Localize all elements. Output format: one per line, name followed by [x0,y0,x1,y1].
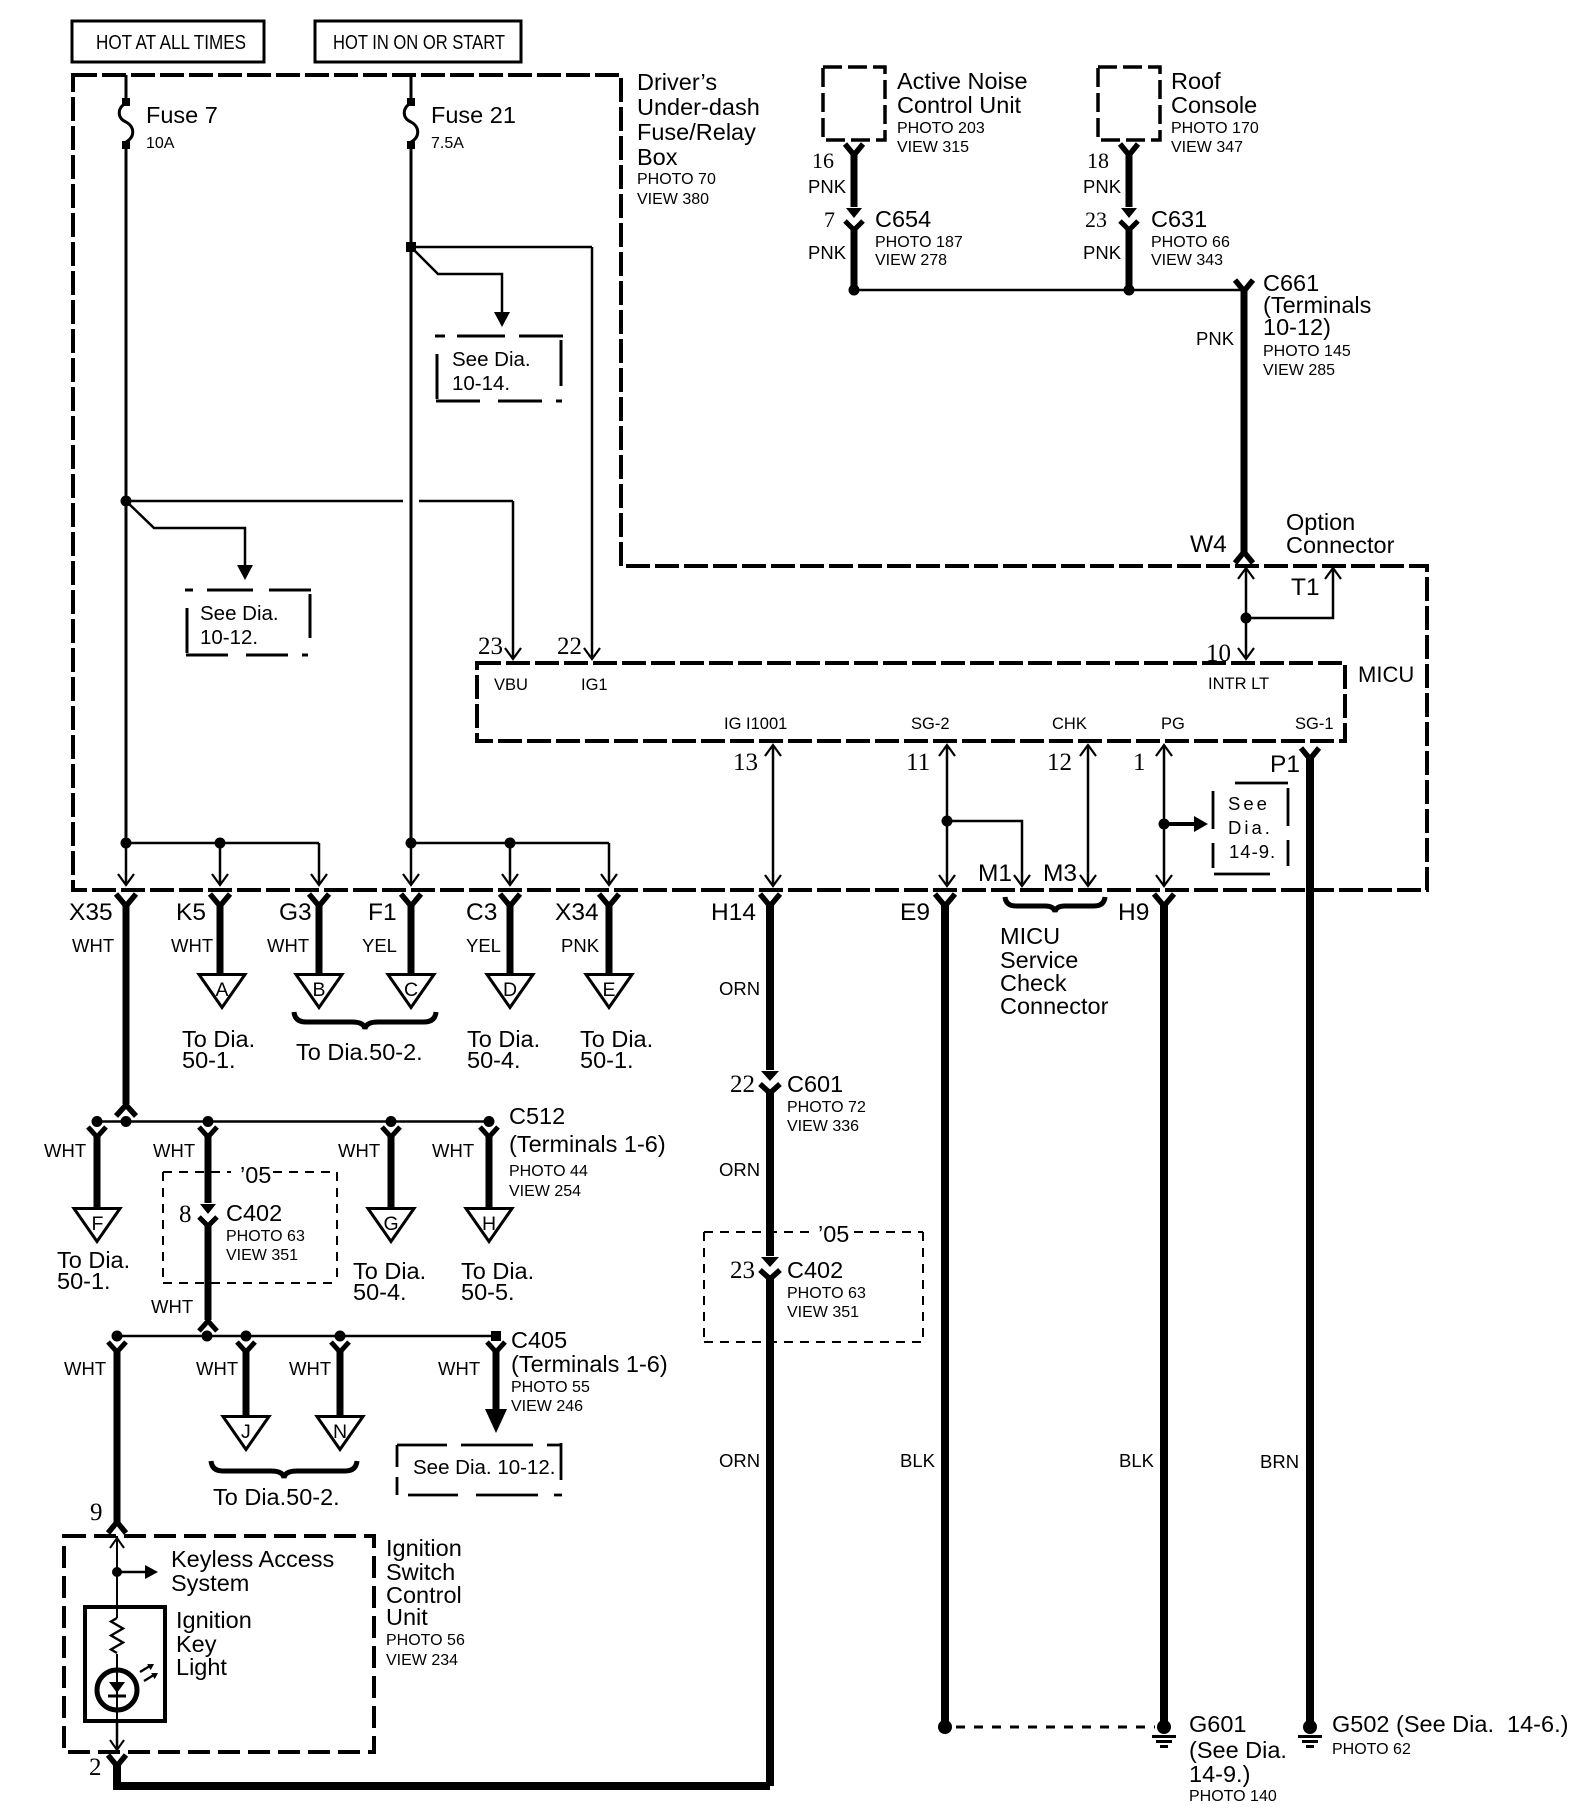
svg-text:System: System [171,1570,249,1596]
svg-text:C512: C512 [509,1103,565,1129]
connector pin G3 with triangle B [267,894,342,1008]
unit box Keyless dashed outline [64,1536,374,1752]
wire arrow into F1 [403,843,419,885]
svg-text:Fuse/Relay: Fuse/Relay [637,119,756,145]
node C512 tap H [484,1116,495,1127]
svg-text:Connector: Connector [1286,532,1395,558]
svg-text:VIEW 234: VIEW 234 [386,1652,458,1669]
svg-text:PHOTO 140: PHOTO 140 [1189,1788,1277,1805]
svg-text:23: 23 [478,633,503,660]
node fuse7 branch junction [121,496,132,507]
wire PNK down to W4 [1241,288,1248,553]
svg-text:PHOTO 63: PHOTO 63 [787,1285,866,1302]
svg-text:WHT: WHT [44,1140,86,1161]
svg-text:10A: 10A [146,135,175,152]
svg-text:WHT: WHT [432,1140,474,1161]
wire MICU pin 11 to E9 [939,745,955,886]
svg-text:YEL: YEL [466,935,501,956]
svg-text:VIEW 285: VIEW 285 [1263,362,1335,379]
label Ignition Key Light [176,1607,252,1680]
node C405 tap N [335,1331,346,1342]
svg-text:C402: C402 [787,1257,843,1283]
wire C3/X34 branch line [411,842,609,845]
label box HOT AT ALL TIMES [72,21,264,62]
svg-text:(Terminals 1-6): (Terminals 1-6) [509,1131,666,1157]
svg-text:PG: PG [1161,715,1185,733]
fuse F7 [119,98,218,152]
svg-text:12: 12 [1047,749,1072,776]
svg-text:E9: E9 [900,899,930,926]
svg-text:ORN: ORN [719,1450,760,1471]
svg-text:X34: X34 [555,899,599,926]
svg-text:PHOTO 44: PHOTO 44 [509,1163,588,1180]
label MICU Service Check Connector [1000,923,1109,1019]
svg-text:Fuse 21: Fuse 21 [431,102,516,128]
reference box See Dia. 10-12. (bottom) [397,1443,562,1495]
fuse F21 [404,98,516,152]
wire branch to See Dia. 10-14. [411,247,510,327]
connector chevron X35 to C512 line [116,1105,136,1116]
svg-text:See Dia.: See Dia. [200,602,279,625]
svg-text:Under-dash: Under-dash [637,94,760,120]
svg-text:VBU: VBU [494,676,528,694]
svg-text:VIEW 315: VIEW 315 [897,139,969,156]
connector stub C402 (left) [153,1127,217,1203]
LED emission arrows [140,1664,158,1681]
svg-text:Fuse 7: Fuse 7 [146,102,218,128]
node C405 tap C402 [202,1331,213,1342]
connector chevron at ANC pin 16 [845,144,863,155]
svg-text:11: 11 [906,749,930,776]
wire BLK H9 down to G601 [1160,903,1168,1722]
svg-text:10-14.: 10-14. [452,372,510,395]
label C405 (Terminals 1-6) [511,1327,668,1415]
wire arrow into G3 [311,843,327,885]
svg-text:C405: C405 [511,1327,567,1353]
svg-text:PHOTO 170: PHOTO 170 [1171,120,1259,137]
node C512 tap F [92,1116,103,1127]
label box HOT IN ON OR START [315,21,521,62]
svg-text:VIEW 343: VIEW 343 [1151,252,1223,269]
svg-text:VIEW 278: VIEW 278 [875,252,947,269]
svg-text:14-9.: 14-9. [1229,841,1276,862]
svg-text:PHOTO 72: PHOTO 72 [787,1099,866,1116]
component box Ignition Key Light [85,1607,165,1721]
svg-text:WHT: WHT [267,935,309,956]
node C512 tap G [386,1116,397,1127]
connector stub with triangle G [338,1127,426,1305]
svg-text:H9: H9 [1118,899,1149,926]
wire W4 to MICU pin 10 [1238,568,1254,659]
ground G601 [1152,1720,1176,1747]
svg-text:J: J [241,1421,251,1443]
brace under J and N [211,1461,357,1478]
svg-text:See: See [1228,793,1270,814]
svg-text:VIEW 246: VIEW 246 [511,1398,583,1415]
svg-text:50-5.: 50-5. [461,1279,515,1305]
svg-text:W4: W4 [1190,531,1227,558]
svg-text:C: C [404,979,418,1001]
wire branch to See Dia. 10-12. [126,501,253,580]
label Option Connector [1286,509,1395,558]
svg-text:Ignition: Ignition [176,1607,252,1633]
node C405 tap arrow [491,1331,501,1341]
svg-text:G3: G3 [279,899,312,926]
svg-text:Keyless Access: Keyless Access [171,1546,334,1572]
connector stub to keyless system [64,1342,126,1522]
wire arrow into X35 [118,843,134,885]
wire arrow into C3 [502,843,518,885]
wire C405 connector line [117,1335,496,1338]
connector pin E9 [900,894,955,926]
svg-text:PHOTO 70: PHOTO 70 [637,171,716,188]
node C405 tap keyless [112,1331,123,1342]
node Roof Console junction [1124,285,1135,296]
svg-text:7: 7 [824,207,835,232]
svg-text:WHT: WHT [338,1140,380,1161]
svg-text:See Dia.: See Dia. [452,348,531,371]
reference box See Dia. 10-12. (left) [185,590,311,655]
connector pin X35 [69,894,136,1104]
node F1 branch junction [406,838,417,849]
svg-text:MICU: MICU [1000,923,1060,949]
svg-text:WHT: WHT [438,1358,480,1379]
connector pin X34 with triangle E [555,894,653,1073]
svg-text:WHT: WHT [289,1358,331,1379]
svg-text:PNK: PNK [808,176,847,197]
svg-text:PHOTO 62: PHOTO 62 [1332,1741,1411,1758]
svg-text:C3: C3 [466,899,497,926]
svg-text:PHOTO 55: PHOTO 55 [511,1379,590,1396]
svg-text:PNK: PNK [1083,242,1122,263]
label Ignition Switch Control Unit [386,1535,465,1669]
reference box See Dia. 14-9. [1213,783,1288,874]
wire VBU branch horizontal (gap at F21 crossover) [126,500,513,503]
node E9 ground tie [938,1720,952,1734]
svg-text:B: B [313,979,326,1001]
svg-text:See Dia. 10-12.: See Dia. 10-12. [413,1456,555,1479]
svg-text:Connector: Connector [1000,993,1109,1019]
wire K5 branch line [126,842,319,845]
svg-text:2: 2 [89,1754,102,1781]
wire arrow to Keyless Access System [117,1565,158,1579]
svg-text:Console: Console [1171,92,1257,118]
05 model year dashed box (right) [704,1221,923,1342]
wire PNK from ANC [851,152,858,207]
svg-text:22: 22 [557,633,582,660]
wire into keyless box with arrow [110,1536,124,1750]
wire fuse 21 feed [410,75,413,99]
svg-text:PHOTO 56: PHOTO 56 [386,1632,465,1649]
wire fuse 7 output [125,147,128,843]
connector pin F1 with triangle C [362,894,434,1008]
svg-text:E: E [603,979,616,1001]
svg-text:9: 9 [90,1499,103,1526]
svg-text:WHT: WHT [196,1358,238,1379]
svg-text:K5: K5 [176,899,206,926]
svg-text:50-4.: 50-4. [353,1279,407,1305]
wire fuse 21 output [410,147,413,843]
svg-text:23: 23 [1085,207,1107,232]
svg-text:10-12): 10-12) [1263,314,1331,340]
node T1 junction [1241,613,1252,624]
svg-text:G: G [384,1213,399,1235]
svg-text:ORN: ORN [719,1159,760,1180]
svg-text:D: D [503,979,517,1001]
svg-text:M1: M1 [978,860,1012,887]
svg-text:50-1.: 50-1. [182,1047,236,1073]
connector stub with triangle F [44,1127,130,1294]
svg-text:Ignition: Ignition [386,1535,462,1561]
wire BLK E9 down [941,903,949,1727]
node ANC junction [849,285,860,296]
svg-text:VIEW 380: VIEW 380 [637,191,709,208]
node C3 branch junction [505,838,516,849]
svg-text:8: 8 [179,1201,192,1228]
wire fuse 7 feed [125,75,128,99]
reference box See Dia. 10-14. [435,336,563,401]
wire ORN H14 upper [766,903,774,1070]
svg-text:50-1.: 50-1. [57,1268,111,1294]
svg-text:C631: C631 [1151,206,1207,232]
node SG-2 M1 junction [942,816,953,827]
svg-text:WHT: WHT [72,935,114,956]
svg-text:1: 1 [1133,749,1146,776]
wire BRN P1 down to G502 [1306,756,1314,1722]
svg-text:CHK: CHK [1052,715,1087,733]
svg-text:Unit: Unit [386,1604,428,1630]
svg-text:H: H [482,1213,496,1235]
svg-text:WHT: WHT [171,935,213,956]
svg-text:7.5A: 7.5A [431,135,464,152]
05 model year dashed box (left) [163,1162,337,1283]
svg-text:10-12.: 10-12. [200,626,258,649]
svg-text:VIEW 254: VIEW 254 [509,1183,581,1200]
inline connector C402 pin 8 [179,1200,305,1264]
svg-text:18: 18 [1087,148,1109,173]
wire MICU pin 12 CHK [1080,745,1096,886]
svg-text:PNK: PNK [1196,328,1235,349]
svg-text:YEL: YEL [362,935,397,956]
connector pin H9 [1118,894,1174,926]
connector stub with triangle N [289,1342,363,1450]
svg-text:IG I1001: IG I1001 [724,715,787,733]
svg-text:P1: P1 [1270,751,1300,778]
node C512 tap X35 [121,1116,132,1127]
svg-text:HOT IN ON OR START: HOT IN ON OR START [333,31,505,54]
connector stub with triangle H [432,1127,534,1305]
svg-text:X35: X35 [69,899,113,926]
wire VBU branch vertical to MICU [505,501,521,659]
wire C402 to C405 [205,1223,212,1320]
node fuse21 branch junction [406,242,416,252]
brace MICU service check connector [1005,897,1105,912]
connector pin C3 with triangle D [466,894,540,1073]
ground G502 [1298,1720,1322,1747]
wire PNK to junction [851,227,858,290]
svg-text:F: F [92,1213,104,1235]
label Keyless Access System [171,1546,334,1596]
svg-text:M3: M3 [1043,860,1077,887]
svg-text:HOT AT ALL TIMES: HOT AT ALL TIMES [96,31,246,54]
svg-text:C601: C601 [787,1071,843,1097]
wire IG1 branch vertical to MICU [584,247,600,659]
inline connector C601 pin 22 [730,1071,866,1135]
svg-text:PHOTO 63: PHOTO 63 [226,1228,305,1245]
svg-text:VIEW 351: VIEW 351 [226,1247,298,1264]
inline connector C402 pin 23 [730,1257,866,1321]
svg-text:C654: C654 [875,206,931,232]
svg-text:Light: Light [176,1654,227,1680]
svg-text:WHT: WHT [153,1140,195,1161]
connector chevron pin 2 [108,1755,126,1766]
fuse/relay box dashed outline [73,75,1427,890]
wire ORN H14 lower to bottom run [766,1276,774,1786]
wire dashed ground tie [956,1726,1155,1729]
MICU pin name labels [494,675,1334,733]
wire PNK from Roof Console [1126,152,1133,207]
wire ORN H14 middle [766,1090,774,1256]
svg-text:H14: H14 [711,899,756,926]
svg-text:PHOTO 145: PHOTO 145 [1263,343,1351,360]
label G502 (See Dia. 14-6.) PHOTO 62 [1332,1711,1568,1758]
wire PNK to junction [1126,227,1133,290]
wire M1 branch [947,821,1030,886]
svg-text:PHOTO 187: PHOTO 187 [875,234,963,251]
svg-text:T1: T1 [1291,574,1320,601]
svg-text:’05: ’05 [240,1162,271,1188]
svg-text:(Terminals 1-6): (Terminals 1-6) [511,1351,668,1377]
wire MICU pin 1 PG to H9 [1156,745,1172,886]
svg-text:PNK: PNK [1083,176,1122,197]
svg-text:50-1.: 50-1. [580,1047,634,1073]
svg-text:(See Dia.: (See Dia. [1189,1737,1287,1763]
svg-text:Driver’s: Driver’s [637,69,717,95]
wire T1 loop [1246,568,1341,618]
wire MICU pin 13 to H14 [765,745,781,886]
connector C661 chevron [1235,280,1253,291]
connector chevron P1 SG-1 [1301,748,1319,759]
svg-text:WHT: WHT [151,1296,193,1317]
svg-text:’05: ’05 [818,1221,849,1247]
svg-text:VIEW 351: VIEW 351 [787,1304,859,1321]
node C512 tap C402 [203,1116,214,1127]
brace under B and C [294,1012,436,1029]
svg-text:BRN: BRN [1260,1451,1299,1472]
label C512 (Terminals 1-6) [509,1103,666,1200]
wire pin 2 to bottom run [117,1762,770,1786]
svg-text:IG1: IG1 [581,676,608,694]
svg-text:A: A [216,979,229,1001]
svg-text:13: 13 [733,749,758,776]
connector stub thick arrow to See Dia. 10-12. [438,1342,507,1433]
inline connector C654 pin 7 [824,206,963,269]
svg-text:F1: F1 [368,899,397,926]
wire IG1 branch horizontal [411,246,592,249]
wire arrow to See Dia. 14-9. [1164,816,1208,832]
svg-text:WHT: WHT [64,1358,106,1379]
svg-text:To Dia.50-2.: To Dia.50-2. [296,1039,423,1065]
connector chevron C402 wire to C405 line [199,1321,217,1331]
svg-text:VIEW 347: VIEW 347 [1171,139,1243,156]
resistor inside key light [111,1618,123,1653]
node C405 tap J [241,1331,252,1342]
svg-text:N: N [333,1421,347,1443]
node PG junction [1159,819,1170,830]
svg-text:14-9.): 14-9.) [1189,1761,1250,1787]
wire arrow into K5 [212,843,228,885]
node X35 branch junction [121,838,132,849]
connector chevron pin 9 [108,1522,126,1533]
svg-text:Box: Box [637,144,678,170]
svg-text:VIEW 336: VIEW 336 [787,1118,859,1135]
node keyless branch [112,1567,122,1577]
svg-text:PNK: PNK [808,242,847,263]
svg-text:PNK: PNK [561,935,600,956]
MICU dashed box [477,663,1345,741]
svg-text:16: 16 [812,148,834,173]
svg-text:50-4.: 50-4. [467,1047,521,1073]
connector chevron W4 [1235,552,1253,563]
unit box Active Noise Control Unit [823,67,1028,156]
connector pin K5 with triangle A [171,894,255,1073]
connector pin H14 [711,894,780,926]
svg-text:INTR LT: INTR LT [1208,675,1269,693]
connector chevron at Roof Console pin 18 [1120,144,1138,155]
inline connector C631 pin 23 [1085,206,1230,269]
connector stub with triangle J [196,1342,269,1450]
svg-text:Roof: Roof [1171,68,1221,94]
svg-text:PHOTO 66: PHOTO 66 [1151,234,1230,251]
svg-text:G601: G601 [1189,1711,1247,1737]
svg-text:BLK: BLK [1119,1450,1155,1471]
svg-text:To Dia.50-2.: To Dia.50-2. [213,1484,340,1510]
svg-text:Control Unit: Control Unit [897,92,1022,118]
node K5 branch junction [215,838,226,849]
svg-text:SG-2: SG-2 [911,715,950,733]
svg-text:22: 22 [730,1071,755,1098]
wire joining junction to C661 [854,289,1244,292]
svg-text:ORN: ORN [719,978,760,999]
label C661 (Terminals 10-12) [1263,270,1371,379]
svg-text:23: 23 [730,1257,755,1284]
svg-text:C402: C402 [226,1200,282,1226]
svg-text:BLK: BLK [900,1450,936,1471]
svg-text:Active Noise: Active Noise [897,68,1028,94]
svg-text:MICU: MICU [1358,662,1414,687]
svg-text:SG-1: SG-1 [1295,715,1334,733]
wire out of keyless box with arrow [110,1721,124,1750]
label G601 (See Dia. 14-9.) PHOTO 140 [1189,1711,1287,1805]
label Driver's Under-dash Fuse/Relay Box [637,69,760,208]
svg-text:PHOTO 203: PHOTO 203 [897,120,985,137]
svg-text:G502 (See Dia. 14-6.): G502 (See Dia. 14-6.) [1332,1711,1568,1737]
unit box Roof Console [1098,67,1259,156]
LED lamp symbol [97,1660,137,1720]
svg-text:Dia.: Dia. [1228,817,1273,838]
wire arrow into X34 [601,843,617,885]
wire C512 connector line [93,1120,489,1123]
